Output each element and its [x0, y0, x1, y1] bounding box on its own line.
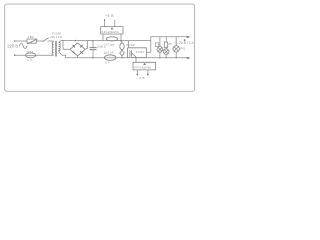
+5 V output terminals [104, 14, 115, 27]
wire top rail [63, 40, 151, 42]
svg-text:PV1: PV1 [180, 47, 185, 50]
svg-text:220 В: 220 В [7, 43, 18, 48]
transistor VT1 box [128, 41, 147, 58]
svg-text:0...20 В / 2 А: 0...20 В / 2 А [175, 41, 195, 45]
wire bridge right vertex riser [85, 41, 89, 50]
wire AC bottom [16, 54, 26, 56]
wire [48, 40, 53, 42]
wire secondary bottom to rail [59, 51, 66, 58]
svg-text:220 12 В: 220 12 В [50, 35, 62, 39]
svg-text:– 5 В: – 5 В [136, 76, 145, 80]
svg-text:ТV1 ВА: ТV1 ВА [52, 31, 61, 35]
svg-text:КР142ЕН5А: КР142ЕН5А [102, 30, 119, 34]
- terminal arrow [187, 57, 191, 59]
resistor R1 (oval) [120, 40, 136, 50]
wire [36, 40, 43, 42]
transformer T1 [50, 31, 62, 56]
wire bottom rail [66, 57, 188, 59]
AC source 220 V [7, 40, 27, 56]
svg-text:КР142ЕН5Б: КР142ЕН5Б [134, 66, 151, 70]
svg-text:Др1 5А: Др1 5А [104, 50, 114, 54]
switch SA1 [43, 38, 47, 41]
resistor R2 [164, 37, 172, 48]
lamp HL2 [163, 47, 169, 58]
fuse FU1 [27, 35, 37, 44]
-5 V output terminals [136, 70, 149, 80]
voltage regulator DA1 [101, 27, 123, 47]
bridge rectifier VD1 [70, 43, 85, 56]
wire box to riser [146, 37, 151, 52]
wire bridge bottom to rail [77, 56, 79, 58]
node dot near + terminal [184, 39, 186, 41]
lamp HL1 [155, 37, 163, 58]
wire secondary top to bridge [59, 40, 63, 42]
svg-text:1 ВА: 1 ВА [28, 35, 34, 39]
svg-text:+5 В: +5 В [105, 14, 114, 18]
svg-text:+: + [86, 44, 88, 48]
wire [16, 40, 27, 42]
svg-text:1 А: 1 А [27, 58, 32, 62]
voltage regulator DA2 [133, 57, 156, 70]
svg-text:С2 0,1мк: С2 0,1мк [104, 43, 115, 47]
capacitor C1 [86, 40, 106, 59]
svg-text:5 А: 5 А [105, 60, 110, 64]
diode VD5 [120, 50, 125, 59]
wire [36, 54, 53, 56]
fuse FU3 oval on bottom rail [104, 50, 116, 64]
svg-text:КТ815: КТ815 [136, 51, 145, 54]
junction dots bottom rail [159, 57, 160, 58]
meter PV1 [173, 37, 186, 58]
+ terminal arrow [187, 36, 191, 38]
svg-text:R1 300: R1 300 [127, 43, 136, 47]
fuse FU2 [25, 50, 36, 62]
wire output top [151, 36, 188, 38]
